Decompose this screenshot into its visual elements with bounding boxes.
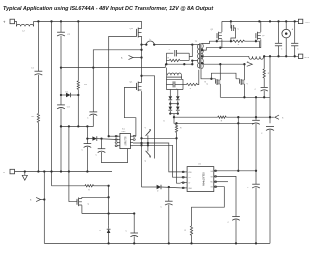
wire col x38 mid: [37, 75, 39, 114]
capacitor C8: [84, 139, 92, 172]
label Q3: [88, 204, 90, 206]
wire bridge bottom tie: [170, 114, 178, 119]
svg-text:Q: Q: [206, 84, 208, 86]
capacitor C2: [57, 32, 65, 36]
wire r5 down: [191, 235, 193, 243]
label QR1: [211, 29, 215, 31]
inductor L2: [15, 21, 34, 26]
diode D2: [168, 90, 172, 107]
wire drv line2: [133, 144, 181, 177]
wire bottom rail: [44, 242, 270, 244]
wire q3 source: [81, 205, 83, 213]
wire primary tap top: [192, 44, 197, 46]
wire branch x93: [93, 50, 141, 68]
wire drv line1: [133, 142, 181, 172]
label QL: [130, 82, 134, 84]
wire iso vert lower: [269, 130, 271, 244]
inductor Lr: [145, 41, 155, 46]
label D8: [100, 230, 102, 232]
label QH: [130, 28, 134, 30]
svg-text:C2: C2: [67, 34, 71, 36]
diode D6: [157, 185, 181, 190]
label Qt1: [145, 127, 147, 129]
wire q3 drain: [82, 196, 110, 198]
svg-text:RD: RD: [210, 182, 213, 184]
wire pin4 drop2: [168, 205, 170, 244]
wire QRb drain: [243, 64, 245, 80]
wire tap A: [202, 40, 234, 43]
wire primary tap bottom: [191, 59, 198, 64]
wire QRa gate: [211, 79, 215, 81]
wire bridge top: [166, 89, 183, 91]
diode D5: [176, 103, 180, 115]
svg-text:B: B: [30, 200, 32, 202]
capacitor C10: [232, 217, 240, 221]
label Csn: [169, 49, 171, 51]
svg-text:Typical Application using ISL6: Typical Application using ISL6744A - 48V…: [3, 6, 213, 12]
transistor QR2: [256, 32, 261, 40]
transistor Qt1: [146, 129, 151, 143]
svg-text:+12V: +12V: [305, 22, 311, 24]
label Rsn: [168, 57, 170, 59]
wire QR1 gate: [216, 39, 218, 41]
svg-text:R: R: [190, 88, 192, 90]
wire y138 link: [142, 137, 177, 139]
diode D8: [107, 225, 111, 243]
node VIN- label: [3, 170, 5, 175]
label C9: [96, 154, 98, 156]
wire col x44: [43, 172, 45, 244]
label Lr: [149, 39, 151, 41]
svg-text:R: R: [238, 44, 240, 46]
resistor Rg1: [233, 40, 244, 42]
capacitor Csn: [166, 50, 189, 56]
label C12: [87, 118, 89, 120]
svg-text:D1: D1: [66, 91, 70, 93]
wire QH drain: [141, 21, 143, 28]
transistor Q3: [69, 198, 82, 207]
label QRb: [246, 83, 248, 85]
wire snub right: [189, 45, 192, 61]
wire tap C rail: [202, 55, 249, 57]
diode D7: [86, 136, 117, 141]
label C10: [228, 222, 230, 224]
label T1: [195, 41, 198, 43]
wire sense line: [174, 117, 254, 124]
op-amp U1 box: [187, 167, 214, 192]
wire u2 pin1 left: [108, 135, 118, 137]
label C8: [82, 150, 84, 152]
svg-text:C3: C3: [67, 107, 71, 109]
title text: [3, 6, 213, 12]
svg-text:Q: Q: [88, 204, 90, 206]
diode D3: [168, 103, 172, 115]
svg-text:R1: R1: [32, 116, 36, 118]
wire halfbridge node: [140, 36, 142, 83]
op-amp U2 box: [120, 133, 130, 148]
wire to primary a: [142, 44, 147, 46]
label U1 pinnames: [188, 170, 213, 190]
svg-text:CS: CS: [188, 177, 191, 179]
wire QR2 source: [259, 39, 260, 47]
label Ng: [205, 82, 207, 84]
svg-text:ICL: ICL: [122, 129, 125, 131]
wire vdd rail: [60, 115, 93, 128]
svg-text:Lr: Lr: [149, 39, 151, 41]
wire col x38 upper: [37, 21, 39, 71]
ground: [22, 172, 27, 181]
svg-text:CT: CT: [188, 183, 190, 185]
wire col x78: [77, 21, 79, 80]
svg-text:C: C: [281, 49, 283, 51]
wire c58 c: [255, 188, 257, 244]
transformer CT core: [167, 76, 182, 78]
terminal VOUT-: [298, 54, 309, 59]
label Cs1: [238, 29, 240, 31]
svg-text:R: R: [221, 121, 223, 123]
svg-text:R: R: [185, 230, 187, 232]
label R5: [185, 230, 187, 232]
svg-text:A: A: [292, 28, 294, 31]
label U2: [121, 129, 126, 147]
wire iso vert upper: [269, 56, 271, 123]
resistor Rct: [183, 70, 199, 86]
wire col x108: [108, 186, 110, 225]
wire R4 down: [175, 133, 180, 184]
wire QRa drain: [219, 64, 221, 80]
svg-text:Q: Q: [145, 127, 147, 129]
capacitor Ciso: [266, 127, 274, 131]
wire branch to x154: [142, 76, 155, 159]
wire vdd line: [86, 126, 88, 138]
op-amp U2 pins left: [115, 135, 120, 146]
wire tap B: [202, 47, 260, 51]
inductor L1: [249, 56, 264, 59]
svg-text:ICL7667: ICL7667: [123, 136, 126, 146]
wire col x38 lower: [37, 123, 39, 172]
wire snub left: [165, 53, 167, 64]
svg-text:QH: QH: [130, 28, 134, 30]
label Rcs: [221, 121, 223, 123]
wire col x61 a: [60, 21, 62, 32]
wire c58 a: [255, 97, 257, 120]
svg-text:QL: QL: [130, 82, 134, 84]
resistor R6: [85, 185, 94, 187]
wire QR1 drain: [222, 20, 299, 32]
capacitor C7: [165, 201, 173, 205]
svg-text:R2: R2: [84, 84, 88, 86]
node VIN+ label: [3, 20, 6, 25]
label C11: [126, 231, 128, 233]
wire mid rail: [61, 66, 165, 68]
svg-text:C: C: [126, 231, 128, 233]
transistor QH: [137, 28, 142, 38]
svg-text:D: D: [100, 230, 102, 232]
wire bridge mid tie: [170, 103, 178, 105]
wire center tap to gates: [201, 69, 213, 80]
capacitor Co2: [291, 21, 299, 56]
wire input minus rail: [15, 170, 113, 172]
load M1: [282, 21, 294, 56]
label Qt2: [145, 161, 147, 163]
capacitor C6: [252, 184, 260, 188]
svg-text:T1: T1: [195, 41, 198, 43]
wire col x93 low: [92, 68, 94, 112]
svg-text:C: C: [96, 154, 98, 156]
svg-text:+: +: [3, 20, 6, 25]
wire sync bottom: [220, 96, 269, 98]
svg-text:RTN: RTN: [305, 57, 310, 59]
svg-text:C: C: [238, 29, 240, 31]
label D6: [157, 191, 159, 193]
label R4: [180, 128, 182, 130]
wire QRb source: [243, 84, 245, 97]
label U1 name: [201, 172, 205, 187]
svg-text:C: C: [160, 207, 162, 209]
wire sense arrow seg: [271, 115, 284, 119]
svg-text:R: R: [268, 73, 270, 75]
wire u1 pin1r: [218, 170, 257, 172]
capacitor Cs1: [231, 21, 236, 41]
capacitor C1: [35, 71, 43, 75]
wire cs line a: [174, 116, 218, 118]
op-amp U2 pins right: [130, 135, 135, 145]
terminal VOUT+: [298, 19, 310, 24]
label C4: [255, 89, 257, 91]
diode D1: [61, 93, 78, 98]
svg-text:C: C: [169, 49, 171, 51]
label Cct: [176, 88, 178, 90]
wire u1 pin3r: [218, 181, 229, 183]
svg-text:R: R: [180, 128, 182, 130]
wire tap D: [202, 63, 246, 65]
wire cs line b: [226, 116, 271, 118]
svg-text:Q: Q: [246, 83, 248, 85]
wire QR2 gate: [255, 39, 257, 42]
wire primary bottom: [165, 63, 193, 68]
wire QH gate: [109, 36, 137, 136]
capacitor C4: [261, 78, 268, 97]
svg-text:L2: L2: [22, 30, 25, 32]
svg-text:C: C: [255, 89, 257, 91]
svg-text:VDD: VDD: [188, 172, 192, 174]
svg-text:OB: OB: [210, 187, 213, 189]
capacitor Cct: [166, 81, 183, 87]
svg-text:Q1: Q1: [211, 29, 215, 31]
label D2-5: [164, 120, 166, 122]
resistor Rsn: [166, 59, 189, 61]
label D1: [66, 91, 70, 93]
wire mid bottom line: [82, 212, 135, 214]
op-amp U1 pins right: [214, 170, 218, 188]
wire col x78 low: [77, 89, 79, 126]
transistor QRa: [215, 79, 220, 85]
transformer T1 secondary: [201, 44, 203, 69]
svg-text:Q2: Q2: [262, 35, 266, 37]
svg-text:A: A: [121, 57, 123, 60]
wire top input rail: [34, 20, 142, 22]
svg-text:C: C: [82, 150, 84, 152]
wire c9 gnd: [102, 149, 128, 163]
wire col x61 c: [60, 109, 62, 172]
svg-text:D: D: [157, 191, 159, 193]
wire QR2 drain: [260, 21, 262, 32]
node arrow A: [121, 55, 142, 59]
diode D4: [176, 90, 180, 107]
svg-text:Q: Q: [145, 161, 147, 163]
svg-text:R: R: [88, 189, 90, 191]
wire out minus rail: [263, 55, 298, 57]
wire QR1 source: [221, 39, 223, 47]
svg-text:7667: 7667: [121, 131, 125, 133]
wire gate bridge: [211, 73, 236, 79]
label QR2: [262, 35, 266, 37]
wire QRa source: [219, 84, 221, 97]
transistor QL: [137, 82, 142, 92]
wire c58 b: [255, 124, 257, 184]
wire col x61 b: [60, 36, 62, 105]
svg-text:C: C: [228, 222, 230, 224]
svg-text:C1: C1: [31, 68, 35, 70]
capacitor C12: [89, 112, 97, 116]
wire col x68 low: [68, 126, 70, 201]
terminal VIN-: [10, 169, 15, 174]
svg-text:C: C: [297, 49, 299, 51]
svg-text:C: C: [247, 187, 249, 189]
label R3: [268, 73, 270, 75]
svg-text:OA: OA: [210, 170, 213, 173]
svg-text:C: C: [261, 133, 263, 135]
wire QL source: [140, 91, 142, 187]
transistor QRb: [240, 79, 245, 85]
wire QRb gate: [236, 79, 240, 81]
transformer CT winding: [166, 68, 181, 76]
label L2: [22, 30, 25, 32]
svg-text:GND: GND: [188, 188, 193, 190]
resistor R2: [77, 81, 79, 90]
label QRa: [206, 84, 208, 86]
capacitor C5: [252, 120, 260, 124]
resistor R1: [37, 114, 39, 123]
resistor R5: [190, 226, 192, 235]
wire u1 pin2r: [218, 176, 237, 216]
transistor QR1: [217, 32, 222, 40]
wire x51 bottom: [52, 185, 85, 187]
resistor Rcs: [218, 116, 226, 118]
wire r6 to q: [94, 185, 110, 187]
svg-text:C: C: [87, 118, 89, 120]
resistor R4: [175, 123, 177, 132]
label C6: [247, 187, 249, 189]
resistor R3: [263, 56, 265, 78]
wire vdd feed: [237, 117, 239, 172]
wire QL gate: [124, 87, 136, 136]
svg-text:ISL6744A: ISL6744A: [201, 172, 205, 187]
wire to primary b: [154, 43, 193, 45]
label R2: [84, 84, 88, 86]
node arrow B: [247, 61, 253, 66]
svg-text:R: R: [168, 57, 170, 59]
label C7: [160, 207, 162, 209]
label R1: [32, 116, 36, 118]
wire c10 down: [235, 220, 237, 244]
label C1: [31, 68, 35, 70]
label C3: [67, 107, 71, 109]
svg-text:VR: VR: [210, 176, 213, 178]
terminal VIN+: [10, 19, 15, 24]
wire u2 vdd line: [87, 138, 92, 140]
capacitor C9: [98, 139, 106, 153]
svg-text:S: S: [282, 117, 284, 119]
transformer T1 primary: [197, 44, 199, 68]
wire col x51: [51, 21, 53, 185]
wire pin4 line: [142, 186, 157, 188]
node arrow C: [30, 197, 44, 201]
capacitor Co1: [275, 21, 283, 56]
transformer CT box: [166, 75, 183, 89]
wire pin4 drop: [168, 187, 170, 201]
label Rct: [190, 88, 192, 90]
op-amp U1 pins left: [181, 171, 188, 189]
capacitor C11: [130, 214, 138, 244]
label C2: [67, 34, 71, 36]
label Ciso: [261, 133, 263, 135]
transformer T1 core: [200, 43, 201, 68]
capacitor C3: [57, 105, 65, 109]
transistor Qt2: [146, 145, 151, 157]
label R6: [88, 189, 90, 191]
svg-text:U1: U1: [198, 163, 202, 165]
wire tap A end: [245, 41, 260, 48]
wire u1 pin4r: [192, 187, 225, 226]
label Rg1: [238, 44, 240, 46]
label U1 ref: [198, 163, 202, 165]
svg-text:D: D: [164, 120, 166, 122]
svg-text:-: -: [3, 170, 5, 175]
